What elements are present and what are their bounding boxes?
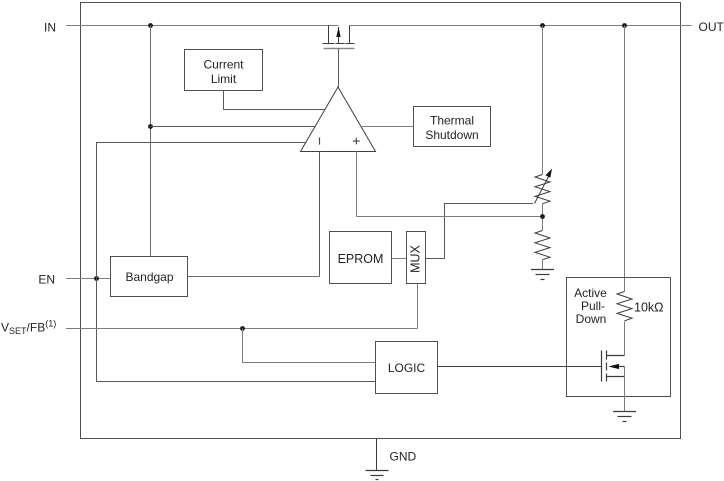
svg-text:LOGIC: LOGIC: [388, 361, 426, 375]
pass transistor Q1 (PMOS): [323, 26, 355, 49]
Q2 body arrow (pointing left): [608, 364, 619, 369]
svg-text:Current: Current: [203, 58, 244, 72]
Active Pull-Down block: [567, 278, 671, 397]
adjustable resistor wiper arrow: [535, 176, 549, 204]
node junction dot divider mid-node: [540, 214, 545, 219]
wire EN net down and right into LOGIC: [97, 279, 376, 382]
pass transistor body arrow (pointing up): [336, 27, 340, 37]
wire to divider ground: [542, 260, 544, 270]
op-amp U1 error amplifier (triangle, output at top apex): [301, 87, 376, 152]
non-inverting input label +: [353, 138, 360, 145]
node junction dot on OUT rail (divider): [540, 23, 545, 28]
svg-text:Active: Active: [574, 286, 607, 300]
EPROM block: [330, 232, 392, 284]
svg-text:OUT: OUT: [699, 20, 724, 34]
svg-text:Thermal: Thermal: [430, 114, 474, 128]
Current Limit block: [185, 50, 263, 91]
svg-text:Bandgap: Bandgap: [125, 270, 173, 284]
wire VSET/FB down into LOGIC: [243, 329, 376, 363]
ground pulldown: [613, 412, 636, 422]
pin GND stem: [376, 439, 378, 471]
wire Current Limit to error amp: [224, 91, 326, 110]
wire to error-amp left side (middle): [151, 126, 316, 128]
node junction dot on OUT rail (10k pulldown): [622, 23, 627, 28]
ground GND pin: [366, 471, 389, 480]
LOGIC block: [376, 342, 438, 394]
wire Bandgap output to inverting input: [188, 276, 320, 278]
wire VSET/FB line: [66, 328, 418, 330]
wire OUT top rail (right of pass FET): [350, 25, 692, 27]
wire divider mid-node: [542, 204, 544, 231]
Thermal Shutdown block: [414, 107, 491, 147]
wire LOGIC output to NMOS gate: [438, 366, 602, 368]
wire EN net up to error amp lower-left input: [97, 143, 306, 279]
transistor Q2 (NMOS active pull-down): [602, 351, 625, 382]
resistor R1 adjustable (zig-zag): [535, 175, 550, 204]
wire EPROM to MUX: [392, 258, 407, 260]
wire IN top rail (left of pass FET): [66, 25, 339, 27]
svg-text:Down: Down: [576, 312, 607, 326]
resistor R2 lower divider (zig-zag): [535, 231, 550, 260]
wire + input to divider mid-node: [357, 216, 543, 218]
svg-text:Shutdown: Shutdown: [425, 128, 478, 142]
wire 10k to NMOS drain: [624, 322, 626, 356]
outer block boundary: [81, 3, 681, 439]
MUX block: [407, 232, 426, 284]
node junction dot EN: [94, 276, 99, 281]
node junction dot on IN rail: [148, 23, 153, 28]
wire MUX bottom down to VSET/FB line: [417, 284, 419, 329]
svg-text:10kΩ: 10kΩ: [634, 301, 664, 315]
ground divider: [531, 270, 554, 280]
Bandgap block: [111, 257, 188, 297]
svg-text:GND: GND: [390, 450, 417, 464]
svg-text:Pull-: Pull-: [581, 299, 605, 313]
wire gate of Q1 down to error-amp output apex: [338, 49, 340, 89]
wire OUT rail down to 10k resistor: [624, 26, 626, 292]
svg-text:Limit: Limit: [211, 72, 237, 86]
wire from IN rail down to Bandgap top: [150, 26, 152, 257]
resistor R3 10k (zig-zag): [617, 292, 632, 321]
wire MUX output to divider wiper: [426, 204, 534, 259]
svg-text:EN: EN: [38, 273, 55, 287]
svg-text:EPROM: EPROM: [338, 252, 384, 266]
node junction dot on VSET/FB: [240, 326, 245, 331]
wire OUT rail down to adjustable resistor: [542, 26, 544, 175]
wire inverting input drop to bandgap line: [319, 152, 321, 277]
node junction dot feeding error-amp upper input: [148, 124, 153, 129]
inverting input label (vertical tick): [319, 137, 321, 144]
wire NMOS source down to ground: [624, 367, 626, 412]
wire EN into Bandgap: [66, 278, 111, 280]
wire error amp right side to Thermal Shutdown: [361, 126, 414, 128]
svg-text:IN: IN: [44, 21, 56, 35]
wire non-inverting input drop to feedback node: [356, 152, 358, 217]
svg-text:MUX: MUX: [409, 244, 423, 272]
